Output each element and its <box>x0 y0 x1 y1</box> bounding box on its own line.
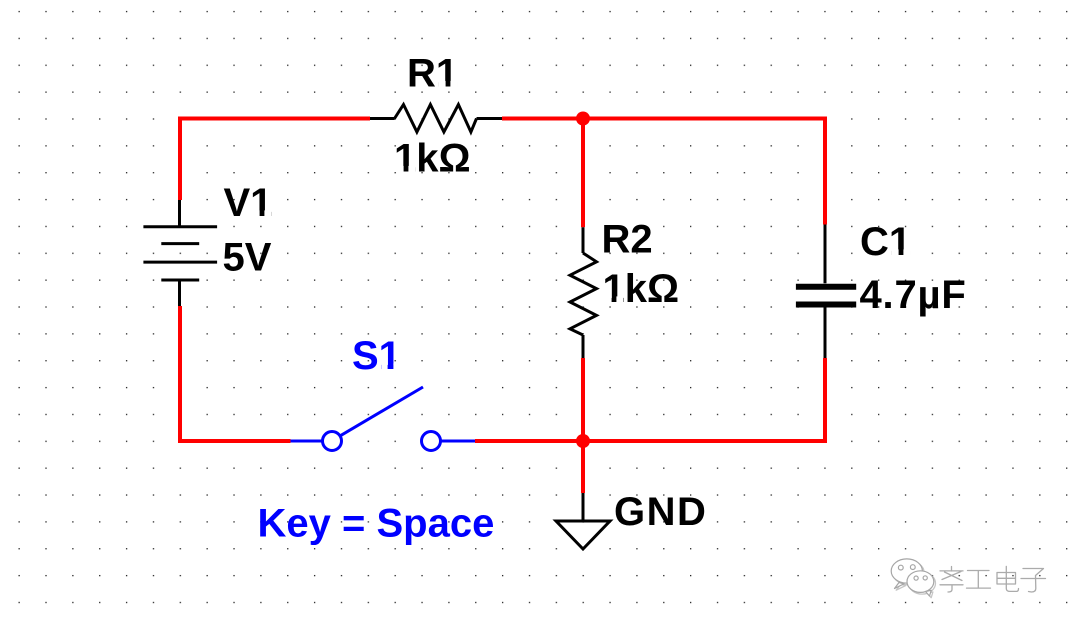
svg-text:5V: 5V <box>223 236 272 280</box>
svg-text:R2: R2 <box>602 218 653 262</box>
svg-text:V1: V1 <box>224 181 273 225</box>
svg-text:4.7µF: 4.7µF <box>860 273 967 317</box>
svg-text:S1: S1 <box>352 334 401 378</box>
svg-text:GND: GND <box>614 490 707 534</box>
svg-text:C1: C1 <box>860 220 911 264</box>
svg-text:Key = Space: Key = Space <box>258 502 495 546</box>
svg-text:1kΩ: 1kΩ <box>394 137 471 181</box>
svg-text:R1: R1 <box>407 52 458 96</box>
svg-text:1kΩ: 1kΩ <box>603 267 680 311</box>
